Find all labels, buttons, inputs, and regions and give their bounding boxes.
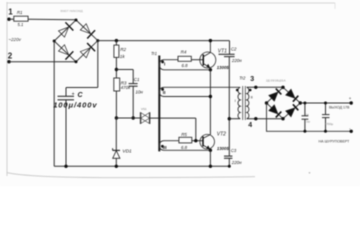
- svg-text:13005: 13005: [217, 146, 230, 151]
- wire C2 down through node B: [228, 57, 230, 157]
- Tr1 winding I: [159, 60, 210, 70]
- wire R4 to VT1 base: [191, 59, 203, 61]
- capacitor C1 10n branch: [116, 70, 143, 119]
- output terminal minus: [349, 126, 353, 133]
- border frame left: [6, 2, 8, 176]
- svg-text:C1: C1: [134, 77, 140, 82]
- svg-text:R1: R1: [17, 10, 23, 15]
- svg-text:13005: 13005: [217, 65, 230, 70]
- output filter capacitor 4700u: [322, 102, 333, 133]
- node diac-net left: [115, 116, 118, 119]
- wire C3 to bus: [228, 158, 230, 166]
- svg-text:2Д 09/16Ц01А: 2Д 09/16Ц01А: [266, 78, 286, 82]
- node cap C on bus: [64, 165, 67, 168]
- node VT1 collector on rail: [209, 39, 212, 42]
- wire output plus rail: [300, 102, 351, 104]
- transistor VT1 13005: [200, 41, 230, 70]
- svg-text:C3: C3: [231, 148, 237, 153]
- node VT2 emitter / winding III: [209, 149, 212, 152]
- svg-text:R2: R2: [120, 47, 126, 52]
- wire rail to R2: [115, 41, 117, 46]
- resistor R2 1k: [114, 45, 127, 59]
- transformer Tr1 core: [151, 51, 159, 151]
- capacitor C2 220n: [219, 46, 243, 63]
- page curl mark bottom-left: [7, 173, 256, 178]
- svg-text:1k: 1k: [120, 54, 126, 59]
- resistor R5 6.8: [179, 132, 192, 150]
- node B (cap divider / Tr2 primary): [228, 117, 231, 120]
- svg-text:220н: 220н: [231, 58, 242, 63]
- wire half-bridge midpoint: [209, 70, 211, 135]
- zener diode VD1: [113, 118, 132, 166]
- wire node to diac: [116, 117, 140, 119]
- transistor VT2 13005: [200, 131, 230, 151]
- svg-text:6.8: 6.8: [181, 145, 188, 150]
- wire term1 to R1: [9, 18, 14, 20]
- Tr2 secondary winding II: [247, 87, 253, 118]
- svg-text:VD1: VD1: [122, 148, 132, 154]
- node midpoint / winding II: [209, 95, 212, 98]
- transformer Tr2 core: [239, 76, 246, 120]
- Tr1 winding III: [159, 141, 210, 151]
- svg-text:6.8: 6.8: [182, 63, 189, 68]
- wire output minus rail: [267, 103, 352, 131]
- capacitor C3 220n: [224, 148, 242, 165]
- input bridge wires (diamond): [54, 20, 98, 62]
- wire right vertex down to cap branch: [97, 41, 99, 88]
- svg-text:VT2: VT2: [217, 131, 226, 137]
- node C1 bottom: [132, 116, 135, 119]
- bridge diode VD top-right: [80, 24, 95, 39]
- wire Tr2 secondary bottom to out bridge / terminal 4: [247, 117, 283, 129]
- svg-text:10н: 10н: [135, 90, 143, 95]
- Tr2 primary winding I: [235, 87, 241, 118]
- svg-text:НА ШУРУПОВЕРТ: НА ШУРУПОВЕРТ: [319, 139, 351, 143]
- border frame top: [7, 3, 335, 9]
- wire R5 to VT2 base: [192, 140, 203, 142]
- svg-text:~220v: ~220v: [8, 37, 21, 42]
- output bridge diode bottom-right (filled): [286, 104, 299, 116]
- svg-text:Tr1: Tr1: [151, 51, 157, 56]
- wire DC+ rail: [98, 40, 230, 42]
- wire term2 to bridge bottom: [9, 61, 76, 63]
- resistor R3 470k: [114, 78, 131, 91]
- node C3 on bus: [228, 165, 231, 168]
- svg-text:1кр: 1кр: [306, 119, 311, 123]
- output terminal plus: [349, 96, 353, 105]
- svg-text:100μ/400v: 100μ/400v: [53, 101, 97, 110]
- wire Tr2 secondary top to out bridge / terminal 3: [247, 76, 283, 89]
- wire R3 to diac node: [115, 91, 117, 118]
- svg-text:ВЫХОД 17В: ВЫХОД 17В: [329, 106, 350, 110]
- svg-text:II: II: [251, 96, 253, 100]
- output bridge diode top-right (filled): [286, 89, 299, 101]
- wire bottom bus: [54, 165, 229, 167]
- bridge vertex nodes: [53, 19, 100, 64]
- node 2 (input terminal): [7, 52, 13, 64]
- node VD1 on bus: [115, 165, 118, 168]
- svg-text:4: 4: [248, 122, 252, 129]
- output bridge wires (diamond): [267, 87, 301, 118]
- output bridge diode bottom-left (filled): [269, 105, 281, 117]
- svg-text:220н: 220н: [231, 160, 242, 165]
- svg-text:Tr2: Tr2: [239, 76, 246, 81]
- wire diac to VT2 base drop: [150, 117, 196, 119]
- wire node B to Tr2 primary bottom: [229, 118, 240, 120]
- svg-text:5.1: 5.1: [18, 22, 24, 27]
- svg-text:2: 2: [8, 52, 13, 61]
- bridge diode VD bottom-right: [80, 43, 95, 58]
- node 1 (input terminal): [7, 8, 13, 21]
- wire R1 to bridge top: [28, 18, 76, 21]
- wire rail corner down to C2: [229, 41, 231, 55]
- svg-text:I: I: [235, 99, 236, 103]
- svg-text:VT1: VT1: [218, 49, 227, 55]
- output bridge diode top-left (filled): [269, 89, 281, 101]
- wire R2 to R3: [115, 57, 117, 78]
- wire DC- left vertex down: [53, 41, 55, 166]
- capacitor C 100u/400v: [53, 88, 97, 167]
- svg-text:+: +: [349, 96, 352, 101]
- resistor R1 5.1: [14, 10, 28, 27]
- output bridge vertex nodes: [265, 86, 302, 121]
- svg-text:C2: C2: [231, 46, 237, 51]
- wire VT2 emitter to bus: [209, 150, 211, 166]
- diac VS1: [140, 107, 149, 124]
- bridge diode VD bottom-left: [59, 45, 74, 60]
- wire cap branch horizontal: [66, 87, 98, 89]
- svg-text:ВМ07 НИКОМД: ВМ07 НИКОМД: [61, 9, 84, 13]
- resistor R4 6.8: [178, 49, 191, 68]
- svg-text:R5: R5: [181, 132, 187, 137]
- svg-text:VS1: VS1: [141, 107, 147, 111]
- node VT1 emitter / winding I: [209, 68, 212, 71]
- bridge diode VD top-left: [59, 22, 74, 37]
- svg-text:+: +: [72, 91, 75, 97]
- Tr1 winding II: [159, 87, 240, 96]
- node R2 top on rail: [115, 39, 118, 42]
- svg-text:R4: R4: [181, 49, 187, 54]
- svg-text:III: III: [163, 145, 168, 151]
- svg-text:3: 3: [250, 76, 254, 83]
- svg-text:1: 1: [8, 8, 13, 17]
- speck: [309, 172, 311, 174]
- node VT2 emitter line on bus: [209, 165, 212, 168]
- node R2-R3 junction: [115, 68, 118, 71]
- output filter capacitor small: [302, 102, 311, 133]
- svg-text:4700μ: 4700μ: [325, 122, 334, 126]
- node diac into VT2 base: [194, 139, 197, 142]
